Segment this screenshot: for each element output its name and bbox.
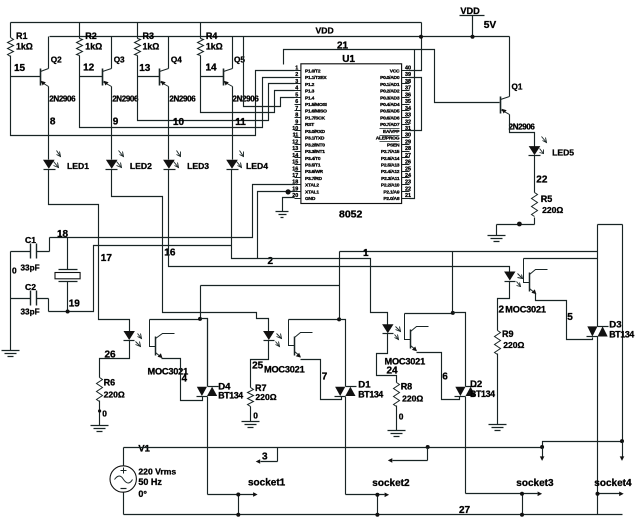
svg-text:33: 33 bbox=[405, 113, 411, 119]
svg-text:Q4: Q4 bbox=[171, 55, 182, 64]
svg-text:11: 11 bbox=[235, 117, 246, 128]
resistor R1 1k bbox=[10, 23, 12, 38]
ground at R9 bbox=[489, 425, 507, 431]
svg-text:14: 14 bbox=[206, 63, 218, 74]
wire D4 MT2 branch bbox=[201, 286, 340, 319]
svg-text:P3.5/T1: P3.5/T1 bbox=[305, 162, 321, 168]
pin 35 U1 bbox=[402, 104, 410, 106]
svg-text:0: 0 bbox=[102, 408, 107, 418]
pin 36 U1 bbox=[402, 97, 410, 99]
wire collector Q4 to rail B bbox=[168, 37, 170, 69]
ground at R5 bbox=[488, 236, 506, 242]
wire R9 to ground bbox=[497, 354, 499, 425]
svg-text:2: 2 bbox=[499, 305, 505, 316]
pin 11 U1 bbox=[295, 137, 301, 139]
svg-text:8: 8 bbox=[50, 117, 56, 128]
wire LED2 cathode to MOC2 anode bbox=[112, 170, 269, 332]
svg-text:10: 10 bbox=[292, 126, 298, 132]
pin 12 U1 bbox=[295, 144, 301, 146]
transistor Q1 2N2906 bbox=[509, 37, 511, 97]
wire stub rail A to rail B at R2 bbox=[79, 23, 81, 37]
wire socket4 switched pin from D3 bbox=[598, 493, 620, 495]
svg-text:20: 20 bbox=[292, 193, 298, 199]
svg-text:VDD: VDD bbox=[460, 6, 480, 16]
svg-text:socket2: socket2 bbox=[372, 478, 410, 489]
svg-text:P1.3: P1.3 bbox=[305, 89, 315, 95]
svg-text:4: 4 bbox=[295, 86, 298, 92]
wire V1 hot bus bbox=[124, 442, 623, 466]
svg-text:7: 7 bbox=[322, 372, 328, 383]
wire base net 12 bbox=[80, 76, 103, 78]
capacitor C2 33pF bbox=[11, 299, 49, 312]
wire MOC3 cathode to R8 bbox=[377, 334, 397, 383]
optocoupler U5 MOC3021 input LED bbox=[504, 272, 515, 281]
wire emitter Q4 to LED3 bbox=[168, 87, 170, 160]
svg-text:8: 8 bbox=[295, 113, 298, 119]
svg-text:220Ω: 220Ω bbox=[255, 392, 276, 402]
pin 15 U1 bbox=[295, 164, 301, 166]
svg-text:1kΩ: 1kΩ bbox=[206, 41, 223, 51]
svg-text:P0.7/AD7: P0.7/AD7 bbox=[380, 122, 400, 128]
wire net 19 to U1 pin 19 bbox=[49, 246, 232, 312]
svg-text:17: 17 bbox=[101, 253, 113, 264]
optocoupler U3 MOC3021 output bbox=[289, 320, 295, 346]
svg-text:28: 28 bbox=[405, 146, 411, 152]
transistor Q5 2N2906 bbox=[223, 69, 225, 86]
wire MOC2 output top to D1 bbox=[289, 319, 340, 321]
svg-text:0: 0 bbox=[253, 411, 258, 421]
svg-text:R4: R4 bbox=[206, 31, 218, 41]
svg-text:19: 19 bbox=[69, 299, 81, 310]
svg-text:P3.1/TXD: P3.1/TXD bbox=[305, 136, 325, 142]
LED LED3 bbox=[163, 160, 175, 169]
ground at C1 C2 bbox=[2, 351, 20, 357]
svg-text:R1: R1 bbox=[16, 31, 28, 41]
svg-text:12: 12 bbox=[292, 139, 298, 145]
svg-text:P3.0/RXD: P3.0/RXD bbox=[305, 129, 325, 135]
wire emitter Q2 to LED1 bbox=[48, 87, 50, 160]
resistor R9 220 bbox=[495, 331, 501, 355]
wire LED1 cathode to MOC1 anode bbox=[49, 170, 130, 332]
wire V1 neutral bus (net 27) bbox=[124, 493, 623, 515]
ground at R8 bbox=[388, 431, 406, 437]
wire stub rail A to rail B at R3 bbox=[137, 23, 139, 37]
transistor Q3 2N2906 bbox=[102, 69, 104, 86]
triac D2 BT134 bbox=[455, 387, 465, 396]
wire MOC2 emitter to D1 gate (net 7) bbox=[301, 360, 342, 400]
pin 28 U1 bbox=[402, 151, 410, 153]
svg-text:P3.4/T0: P3.4/T0 bbox=[305, 156, 321, 162]
svg-text:BT134: BT134 bbox=[609, 330, 634, 340]
pin 26 U1 bbox=[402, 164, 410, 166]
svg-text:Q1: Q1 bbox=[512, 83, 523, 92]
wire VDD rail B (net 21 / VDD) bbox=[50, 36, 510, 38]
svg-text:1: 1 bbox=[363, 248, 369, 259]
svg-text:5: 5 bbox=[295, 92, 298, 98]
svg-text:34: 34 bbox=[405, 106, 411, 112]
wire R8 to ground bbox=[396, 406, 398, 431]
LED LED5 bbox=[529, 146, 541, 155]
svg-text:P1.6/MISO: P1.6/MISO bbox=[305, 109, 327, 115]
svg-text:RST: RST bbox=[305, 122, 314, 128]
svg-text:P1.0/T2: P1.0/T2 bbox=[305, 68, 321, 74]
wire net 15 to U1 pin bbox=[11, 71, 295, 136]
svg-text:Q2: Q2 bbox=[51, 55, 62, 64]
wire VDD rail A (top) bbox=[11, 22, 422, 24]
wire socket2 neutral drop bbox=[377, 495, 379, 515]
wire emitter Q5 to LED4 bbox=[232, 87, 234, 160]
pin 13 U1 bbox=[295, 151, 301, 153]
svg-text:ALE/PROG: ALE/PROG bbox=[376, 136, 400, 142]
pin 22 U1 bbox=[402, 191, 410, 193]
svg-text:GND: GND bbox=[305, 196, 316, 202]
wire MOC3 emitter to D2 gate (net 6) bbox=[417, 353, 460, 400]
transistor Q2 2N2906 bbox=[40, 69, 42, 86]
svg-text:31: 31 bbox=[405, 126, 411, 132]
svg-text:2N2906: 2N2906 bbox=[509, 123, 536, 132]
svg-text:P2.5/A13: P2.5/A13 bbox=[381, 162, 400, 168]
svg-text:6: 6 bbox=[295, 99, 298, 105]
svg-text:22: 22 bbox=[536, 175, 548, 186]
svg-text:4: 4 bbox=[182, 373, 188, 384]
wire MOC4 output top to D3 bbox=[524, 258, 598, 260]
pin 23 U1 bbox=[402, 184, 410, 186]
resistor R8 220 bbox=[394, 383, 400, 407]
svg-text:P0.0/AD0: P0.0/AD0 bbox=[380, 75, 400, 81]
svg-text:P2.0/A8: P2.0/A8 bbox=[383, 196, 399, 202]
svg-text:U1: U1 bbox=[342, 54, 355, 65]
svg-text:220Ω: 220Ω bbox=[542, 205, 563, 215]
svg-text:220Ω: 220Ω bbox=[503, 340, 524, 350]
wire socket3 hot stub bbox=[540, 445, 544, 449]
pin 38 U1 bbox=[402, 83, 410, 85]
pin 8 U1 bbox=[295, 117, 301, 119]
wire base net 15 bbox=[11, 76, 41, 78]
pin 9 U1 bbox=[295, 124, 301, 126]
resistor R2 1k bbox=[79, 37, 81, 39]
wire pin 20 GND to ground bbox=[283, 198, 295, 212]
wire net 12 to U1 pin bbox=[80, 77, 295, 128]
wire MOC4 emitter to D3 gate (net 5) bbox=[536, 294, 593, 340]
svg-text:40: 40 bbox=[405, 66, 411, 72]
svg-text:2N2906: 2N2906 bbox=[169, 95, 196, 104]
wire LED4 cathode to MOC3 anode bbox=[232, 170, 388, 325]
svg-text:XTAL2: XTAL2 bbox=[305, 183, 319, 189]
pin 14 U1 bbox=[295, 157, 301, 159]
LED LED4 bbox=[226, 160, 238, 169]
svg-text:socket3: socket3 bbox=[516, 478, 554, 489]
svg-text:27: 27 bbox=[405, 153, 411, 159]
svg-text:32: 32 bbox=[405, 119, 411, 125]
wire net 18 crystal to U1 pin 18 bbox=[50, 185, 295, 238]
power VDD 5V symbol bbox=[460, 16, 485, 37]
wire LED5 to R5 bbox=[534, 156, 536, 193]
svg-text:BT134: BT134 bbox=[470, 389, 495, 399]
junction rail A riser crossing rail B bbox=[419, 35, 423, 39]
wire R5 to ground bbox=[497, 218, 535, 236]
svg-text:11: 11 bbox=[293, 133, 299, 139]
wire D3 MT2 bridge bbox=[598, 225, 623, 442]
svg-text:P0.2/AD2: P0.2/AD2 bbox=[380, 89, 400, 95]
svg-text:P1.7/SCK: P1.7/SCK bbox=[305, 115, 325, 121]
pin 21 U1 bbox=[402, 198, 410, 200]
wire socket1 hot stub (net 3) bbox=[261, 448, 278, 462]
svg-text:P2.4/A12: P2.4/A12 bbox=[381, 169, 400, 175]
wire MOC1 emitter to D4 gate (net 4) bbox=[162, 359, 203, 401]
triac D4 BT134 bbox=[197, 387, 207, 396]
ground at R7 bbox=[242, 422, 260, 428]
svg-text:23: 23 bbox=[405, 180, 411, 186]
svg-text:LED1: LED1 bbox=[67, 161, 89, 171]
wire base net 13 bbox=[138, 76, 160, 78]
wire net 14 to U1 pin bbox=[201, 77, 295, 113]
svg-text:21: 21 bbox=[405, 193, 411, 199]
svg-text:2: 2 bbox=[268, 256, 274, 267]
svg-text:35: 35 bbox=[405, 99, 411, 105]
svg-text:0: 0 bbox=[399, 412, 404, 422]
svg-text:38: 38 bbox=[405, 79, 411, 85]
wire C1 C2 to ground bbox=[10, 252, 12, 351]
pin 40 U1 bbox=[402, 70, 410, 72]
LED LED2 bbox=[106, 160, 118, 169]
svg-text:P3.3/INT1: P3.3/INT1 bbox=[305, 149, 325, 155]
svg-text:220 Vrms: 220 Vrms bbox=[138, 467, 176, 477]
svg-text:25: 25 bbox=[405, 166, 411, 172]
svg-text:LED5: LED5 bbox=[552, 147, 574, 157]
wire collector Q3 to rail B bbox=[111, 37, 113, 69]
svg-text:P0.3/AD3: P0.3/AD3 bbox=[380, 95, 400, 101]
svg-text:P2.7/A15: P2.7/A15 bbox=[381, 149, 400, 155]
svg-text:P2.1/A9: P2.1/A9 bbox=[383, 189, 399, 195]
resistor R5 220 bbox=[532, 193, 538, 217]
optocoupler U4 MOC3021 output bbox=[405, 314, 411, 340]
svg-text:1kΩ: 1kΩ bbox=[16, 41, 33, 51]
source V1 220 Vrms 50 Hz bbox=[110, 466, 136, 492]
svg-text:1kΩ: 1kΩ bbox=[143, 41, 160, 51]
wire rail A to pin 40 of U1 bbox=[410, 23, 422, 71]
svg-text:socket1: socket1 bbox=[248, 478, 286, 489]
pin 20 U1 bbox=[295, 198, 301, 200]
svg-text:MOC3021: MOC3021 bbox=[264, 364, 305, 374]
svg-text:P2.2/A10: P2.2/A10 bbox=[381, 183, 400, 189]
pin 32 U1 bbox=[402, 124, 410, 126]
wire base net 14 bbox=[201, 76, 224, 78]
svg-text:R3: R3 bbox=[143, 31, 155, 41]
svg-text:17: 17 bbox=[292, 173, 298, 179]
pin 6 U1 bbox=[295, 104, 301, 106]
svg-text:16: 16 bbox=[164, 248, 176, 259]
svg-text:1kΩ: 1kΩ bbox=[85, 41, 102, 51]
pin 16 U1 bbox=[295, 171, 301, 173]
pin 3 U1 bbox=[295, 83, 301, 85]
triac D1 BT134 bbox=[335, 387, 345, 396]
svg-text:P1.4: P1.4 bbox=[305, 95, 315, 101]
svg-text:33pF: 33pF bbox=[21, 264, 40, 273]
pin 10 U1 bbox=[295, 130, 301, 132]
wire MOC1 cathode to R6 bbox=[100, 341, 130, 378]
svg-text:27: 27 bbox=[459, 505, 471, 516]
svg-text:0: 0 bbox=[12, 266, 17, 276]
op-amp U1 8052 microcontroller bbox=[301, 64, 402, 204]
svg-text:P3.2/INT0: P3.2/INT0 bbox=[305, 142, 325, 148]
svg-text:EA/VPP: EA/VPP bbox=[383, 129, 400, 135]
pin 17 U1 bbox=[295, 177, 301, 179]
pin 34 U1 bbox=[402, 110, 410, 112]
svg-text:BT134: BT134 bbox=[358, 389, 383, 399]
svg-text:2N2906: 2N2906 bbox=[112, 95, 139, 104]
svg-text:14: 14 bbox=[292, 153, 298, 159]
wire R7 to ground bbox=[250, 407, 252, 422]
wire net 13 to U1 pin bbox=[138, 77, 295, 121]
svg-text:C1: C1 bbox=[25, 235, 36, 245]
svg-text:15: 15 bbox=[292, 160, 298, 166]
svg-text:9: 9 bbox=[295, 119, 298, 125]
wire net to U1 pin 5 from rail B bbox=[244, 37, 295, 107]
svg-text:P0.1/AD1: P0.1/AD1 bbox=[380, 82, 400, 88]
pin 1 U1 bbox=[295, 70, 301, 72]
svg-text:P3.6/WR: P3.6/WR bbox=[305, 169, 324, 175]
optocoupler U3 MOC3021 input LED bbox=[263, 331, 274, 340]
ground at R6 bbox=[91, 426, 109, 432]
pin 27 U1 bbox=[402, 157, 410, 159]
wire socket2 hot stub bbox=[426, 445, 430, 449]
pin 25 U1 bbox=[402, 171, 410, 173]
wire socket3 switched pin from D2 bbox=[466, 493, 538, 495]
wire MOC3 output top to D2 bbox=[405, 313, 453, 315]
wire socket1 switched pin from D4 bbox=[208, 494, 254, 496]
svg-text:P0.6/AD6: P0.6/AD6 bbox=[380, 115, 400, 121]
optocoupler U5 MOC3021 output bbox=[524, 259, 530, 283]
svg-text:R6: R6 bbox=[104, 377, 116, 387]
svg-text:3: 3 bbox=[262, 452, 268, 463]
pin 37 U1 bbox=[402, 90, 410, 92]
wire socket1 neutral drop bbox=[238, 495, 240, 515]
svg-text:LED2: LED2 bbox=[130, 161, 152, 171]
pin 31 U1 bbox=[402, 130, 410, 132]
svg-text:26: 26 bbox=[405, 160, 411, 166]
svg-text:37: 37 bbox=[405, 86, 411, 92]
wire LED3 cathode to MOC4 anode (net 2) bbox=[169, 170, 510, 272]
wire collector Q2 to rail B bbox=[48, 37, 50, 69]
optocoupler U2 MOC3021 input LED bbox=[124, 331, 135, 340]
svg-text:39: 39 bbox=[405, 72, 411, 78]
svg-text:36: 36 bbox=[405, 92, 411, 98]
optocoupler U2 MOC3021 output bbox=[150, 320, 156, 347]
svg-text:C2: C2 bbox=[25, 282, 36, 292]
triac D3 BT134 bbox=[587, 326, 597, 336]
svg-text:P2.6/A14: P2.6/A14 bbox=[381, 156, 400, 162]
pin 33 U1 bbox=[402, 117, 410, 119]
capacitor C1 33pF bbox=[11, 238, 50, 252]
pin 5 U1 bbox=[295, 97, 301, 99]
wire net 1 mains to triacs bbox=[340, 251, 598, 253]
svg-text:socket4: socket4 bbox=[594, 478, 632, 489]
wire net 21 over U1 to Q1 base bbox=[284, 50, 500, 103]
svg-text:2N2906: 2N2906 bbox=[49, 95, 76, 104]
svg-text:30: 30 bbox=[405, 133, 411, 139]
svg-text:P3.7/RD: P3.7/RD bbox=[305, 176, 322, 182]
wire Q1 emitter to LED5 bbox=[510, 115, 535, 147]
pin 24 U1 bbox=[402, 177, 410, 179]
svg-text:2: 2 bbox=[295, 72, 298, 78]
svg-text:1: 1 bbox=[295, 66, 298, 72]
svg-text:7: 7 bbox=[295, 106, 298, 112]
svg-text:13: 13 bbox=[139, 63, 151, 74]
svg-text:220Ω: 220Ω bbox=[402, 394, 423, 404]
svg-text:VCC: VCC bbox=[390, 68, 400, 74]
wire socket3 neutral drop bbox=[522, 494, 524, 515]
resistor R6 220 bbox=[97, 378, 103, 402]
svg-text:50 Hz: 50 Hz bbox=[138, 477, 162, 487]
svg-text:24: 24 bbox=[387, 365, 399, 376]
wire pin 39 to pin 31 (EA) bbox=[410, 78, 422, 131]
wire R6 to ground bbox=[99, 401, 101, 426]
svg-text:13: 13 bbox=[292, 146, 298, 152]
svg-text:25: 25 bbox=[252, 361, 264, 372]
svg-text:33pF: 33pF bbox=[21, 307, 40, 316]
svg-text:29: 29 bbox=[405, 139, 411, 145]
svg-text:MOC3021: MOC3021 bbox=[505, 305, 546, 315]
svg-text:R9: R9 bbox=[502, 329, 514, 339]
pin 7 U1 bbox=[295, 110, 301, 112]
svg-text:LED4: LED4 bbox=[246, 161, 268, 171]
wire MOC1 output top to D4 bbox=[150, 319, 201, 321]
svg-text:24: 24 bbox=[405, 173, 411, 179]
svg-text:3: 3 bbox=[295, 79, 298, 85]
svg-text:VDD: VDD bbox=[316, 25, 334, 35]
svg-text:BT134: BT134 bbox=[218, 390, 243, 400]
svg-text:R2: R2 bbox=[85, 31, 97, 41]
svg-text:5: 5 bbox=[567, 312, 573, 323]
resistor R3 1k bbox=[137, 37, 139, 39]
svg-text:P0.5/AD5: P0.5/AD5 bbox=[380, 109, 400, 115]
pin 18 U1 bbox=[295, 184, 301, 186]
svg-text:0°: 0° bbox=[138, 489, 147, 499]
pin 2 U1 bbox=[295, 77, 301, 79]
svg-text:6: 6 bbox=[442, 372, 448, 383]
svg-text:22: 22 bbox=[405, 186, 411, 192]
svg-text:5V: 5V bbox=[484, 20, 497, 31]
svg-text:16: 16 bbox=[292, 166, 298, 172]
svg-text:P1.5/MOSI: P1.5/MOSI bbox=[305, 102, 328, 108]
svg-text:XTAL1: XTAL1 bbox=[305, 189, 319, 195]
svg-text:P0.4/AD4: P0.4/AD4 bbox=[380, 102, 400, 108]
wire socket4 hot stub bbox=[622, 442, 624, 457]
svg-text:P2.3/A11: P2.3/A11 bbox=[381, 176, 400, 182]
svg-text:18: 18 bbox=[57, 229, 69, 240]
wire D1 MT2 feed bbox=[339, 252, 341, 320]
svg-text:9: 9 bbox=[113, 117, 119, 128]
wire D2 MT2 feed bbox=[452, 252, 454, 313]
optocoupler U4 MOC3021 input LED bbox=[382, 324, 393, 333]
wire MOC2 cathode to R7 bbox=[251, 341, 269, 388]
resistor R7 220 bbox=[248, 388, 254, 407]
pin 30 U1 bbox=[402, 137, 410, 139]
svg-text:12: 12 bbox=[83, 62, 95, 73]
svg-text:220Ω: 220Ω bbox=[104, 389, 125, 399]
pin 29 U1 bbox=[402, 144, 410, 146]
pin 19 U1 bbox=[295, 191, 301, 193]
svg-text:R8: R8 bbox=[401, 381, 413, 391]
ground at U1 pin 20 bbox=[276, 212, 289, 218]
wire net 19 riser to pin 19 bbox=[258, 192, 295, 259]
crystal X1 bbox=[59, 238, 78, 312]
svg-text:P1.1/T2EX: P1.1/T2EX bbox=[305, 75, 327, 81]
wire pin 21 riser along U1 right stubs bbox=[410, 50, 415, 199]
svg-text:PSEN: PSEN bbox=[387, 142, 400, 148]
svg-text:R5: R5 bbox=[541, 194, 553, 204]
svg-text:LED3: LED3 bbox=[187, 161, 209, 171]
